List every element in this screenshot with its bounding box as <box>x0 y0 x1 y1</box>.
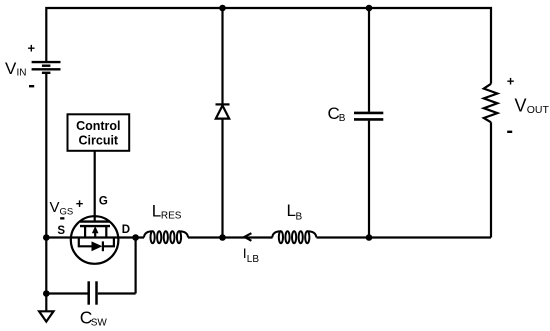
transistor Q1 body-diode triangle <box>92 241 103 251</box>
wire CSW branch vertical <box>135 238 137 294</box>
wire CB branch top <box>368 8 370 112</box>
svg-text:Control: Control <box>76 119 120 133</box>
node D <box>132 234 139 241</box>
wire CB branch bottom <box>368 121 370 238</box>
inductor LRES <box>144 231 188 243</box>
node CB bottom <box>366 234 373 241</box>
wire top rail <box>46 8 491 84</box>
wire right rail bottom <box>490 122 492 237</box>
wire LRES to node <box>188 236 273 238</box>
svg-text:S: S <box>57 225 65 237</box>
transistor Q1 gate bar <box>80 220 110 222</box>
capacitor CB <box>354 112 383 115</box>
label battery minus <box>29 85 34 87</box>
svg-text:OUT: OUT <box>527 104 550 116</box>
wire diode branch bottom <box>221 119 223 238</box>
transistor Q1 body stub <box>94 232 96 238</box>
node top CB <box>366 5 373 12</box>
wire diode branch top <box>221 8 223 104</box>
transistor Q1 body arrow <box>92 226 99 233</box>
svg-text:IN: IN <box>17 68 27 79</box>
ground <box>39 311 53 321</box>
node diode bottom <box>219 234 226 241</box>
transistor Q1 source stub <box>84 226 86 237</box>
transistor Q1 body circle <box>71 216 119 264</box>
wire bottom rail S to LRES <box>46 236 144 238</box>
current arrow ILB <box>244 233 251 241</box>
diode D1 bar <box>216 103 230 105</box>
node top diode <box>219 5 226 12</box>
svg-text:V: V <box>50 199 60 216</box>
wire CSW branch horizontal left <box>46 292 87 294</box>
resistor RLOAD zigzag <box>484 84 498 123</box>
svg-text:+: + <box>507 74 515 89</box>
svg-text:GS: GS <box>60 206 74 217</box>
label VGS minus <box>60 217 64 219</box>
transistor Q1 body-diode bar <box>102 241 104 251</box>
capacitor CSW <box>95 281 98 304</box>
diode D1 triangle <box>216 106 229 119</box>
svg-text:B: B <box>296 211 303 222</box>
transistor Q1 drain stub <box>105 226 107 237</box>
wire left rail <box>45 73 47 294</box>
svg-text:RES: RES <box>161 211 182 222</box>
svg-text:Circuit: Circuit <box>79 133 119 147</box>
inductor LB <box>272 231 316 243</box>
wire LB to right rail <box>317 236 492 238</box>
svg-text:+: + <box>28 41 36 56</box>
svg-text:V: V <box>515 95 527 115</box>
label VOUT minus <box>507 131 512 133</box>
svg-text:G: G <box>99 195 108 207</box>
svg-text:+: + <box>76 196 84 211</box>
svg-text:D: D <box>122 224 130 236</box>
svg-text:SW: SW <box>91 318 108 329</box>
svg-text:LB: LB <box>247 254 260 265</box>
wire ground stub <box>45 294 47 312</box>
wire CSW branch horizontal right <box>98 292 136 294</box>
wire gate <box>94 151 96 222</box>
transistor Q1 channel bar <box>80 225 110 227</box>
svg-text:L: L <box>152 201 161 220</box>
transistor Q1 body-diode loop <box>79 238 92 247</box>
node S <box>43 234 50 241</box>
node CSW ground <box>43 290 50 297</box>
svg-text:V: V <box>5 59 17 78</box>
battery VIN <box>32 62 61 73</box>
svg-text:B: B <box>339 113 346 124</box>
control circuit box U1 <box>68 114 130 151</box>
